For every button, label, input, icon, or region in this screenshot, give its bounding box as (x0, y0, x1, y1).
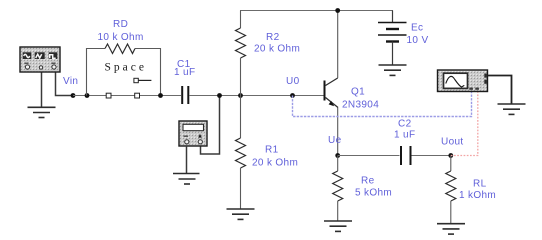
ground (under multimeter) (173, 174, 200, 185)
wire: scope channel B (red dotted) from Uout (451, 92, 478, 156)
transistor Q1 emitter arrow (329, 101, 335, 106)
junction dot right of loop (158, 93, 163, 98)
node Vin junction dot (71, 93, 76, 98)
capacitor C2 plates (400, 146, 402, 165)
node U0 junction dot (290, 93, 295, 98)
switch right terminal square (135, 93, 140, 98)
resistor R1 (vertical zigzag) (236, 138, 246, 168)
oscilloscope XSC (438, 70, 488, 92)
multimeter XMM (179, 121, 207, 146)
wire: C2 to Uout (412, 155, 451, 157)
ground (under battery) (379, 65, 407, 75)
wire: multimeter ground lead (186, 146, 188, 174)
resistor R2 (vertical zigzag) (236, 28, 246, 58)
svg-text:Ue: Ue (328, 135, 342, 146)
svg-text:C2: C2 (398, 118, 412, 129)
svg-text:2N3904: 2N3904 (342, 99, 379, 110)
svg-text:1 uF: 1 uF (394, 130, 415, 141)
ground (under RL) (437, 224, 465, 234)
ground (under R1) (227, 209, 255, 219)
transistor Q1 emitter diagonal (326, 98, 339, 108)
wire: RD bypass loop (left riser, top lead, right riser) (87, 49, 161, 96)
svg-text:20 k Ohm: 20 k Ohm (254, 44, 300, 55)
resistor Re (vertical zigzag) with leads (337, 156, 339, 172)
wire: R1 bottom lead (240, 168, 242, 209)
svg-text:1 kOhm: 1 kOhm (459, 190, 496, 201)
wire: scope ground connection (488, 76, 512, 105)
svg-text:Q1: Q1 (351, 87, 365, 98)
junction dot R1/R2 divider node (238, 93, 243, 98)
junction dot collector/top rail (335, 8, 340, 13)
ground (under Re) (324, 221, 352, 231)
wire: main input rail from Vin to C1 (73, 95, 181, 97)
svg-text:R2: R2 (266, 32, 280, 43)
transistor Q1 base bar (324, 81, 326, 101)
resistor RL (vertical zigzag) with leads (450, 156, 452, 172)
wire: scope channel A (blue) from U0 node (293, 92, 472, 117)
svg-text:Ec: Ec (411, 23, 423, 34)
svg-text:R1: R1 (265, 145, 279, 156)
wire: emitter down to Ue node (337, 108, 339, 156)
wire: rail from C1 to transistor base (189, 95, 324, 97)
svg-text:10 k Ohm: 10 k Ohm (98, 32, 144, 43)
node Ue junction dot (335, 153, 340, 158)
wire: R2 bottom lead (240, 58, 242, 96)
svg-text:1 uF: 1 uF (174, 67, 195, 78)
switch J (Space key) left terminal square (106, 93, 111, 98)
wire: battery top lead (392, 11, 394, 23)
wire: Ue rail to C2 (338, 155, 400, 157)
capacitor C1 plates (181, 86, 183, 104)
wire: top supply rail (240, 10, 393, 12)
svg-text:Vin: Vin (63, 76, 78, 87)
ground (under function generator) (28, 107, 56, 117)
wire: tap down to multimeter (201, 96, 220, 155)
svg-text:Re: Re (361, 176, 375, 187)
svg-text:RD: RD (113, 19, 128, 30)
wire: collector riser to top rail (337, 11, 339, 79)
svg-text:U0: U0 (286, 76, 300, 87)
svg-text:10 V: 10 V (407, 35, 429, 46)
function generator XFG (20, 47, 60, 72)
svg-text:20 k Ohm: 20 k Ohm (252, 158, 298, 169)
junction dot multimeter tap (217, 93, 222, 98)
wire: function generator ground lead (41, 72, 43, 107)
battery Ec plates (378, 23, 407, 42)
transistor Q1 collector diagonal (326, 78, 338, 86)
junction dot left of RD loop (85, 93, 90, 98)
ground (right of scope) (498, 104, 526, 114)
svg-text:RL: RL (473, 179, 487, 190)
wire: function generator output down then right to Vin node (56, 72, 74, 96)
node Uout junction dot (448, 153, 453, 158)
svg-text:Uout: Uout (441, 137, 464, 148)
wire: battery bottom lead (392, 42, 394, 66)
resistor RD (horizontal zigzag) (105, 44, 135, 54)
switch actuator square and lever (134, 78, 138, 82)
wire: R1 top lead (240, 96, 242, 139)
svg-text:5 kOhm: 5 kOhm (355, 188, 392, 199)
wire: R2 top lead from rail (240, 11, 242, 29)
svg-text:Space: Space (105, 62, 147, 74)
